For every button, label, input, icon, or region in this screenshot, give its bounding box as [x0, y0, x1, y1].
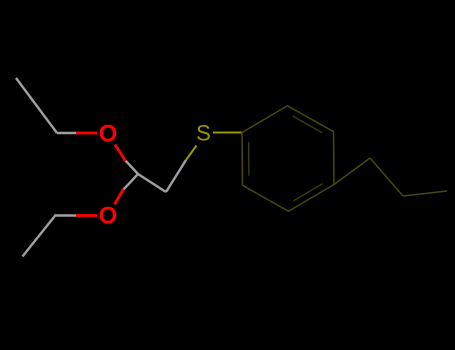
wire: olive bond S-ring — [213, 132, 242, 134]
wire: CH-CH2 grey bond — [138, 174, 166, 192]
wire: CH2-S grey half bond — [166, 160, 186, 192]
wire: CH2-O1 grey half bond — [57, 132, 77, 134]
wire: propyl C8-C9 — [403, 191, 447, 196]
wire: propyl C7-C8 — [370, 158, 403, 196]
wire: ethyl CH3-CH2 bottom-left grey bond — [23, 215, 57, 257]
wire: O1-CH grey half bond — [125, 160, 139, 175]
wire: red half bond O2 to CH — [115, 189, 124, 205]
wire: red half bond O1 to CH — [115, 145, 126, 162]
wire: O2-CH grey half bond — [123, 174, 138, 190]
wire: olive half bond CH2-S — [186, 133, 242, 161]
wire: ethyl CH3-CH2 top-left grey bond — [16, 78, 186, 257]
wire: ring C4 to propyl C7 — [334, 158, 370, 185]
wire: red half bond into O2 — [76, 214, 97, 217]
benzene ring C1-C6 dark bonds — [242, 106, 447, 212]
svg-text:O: O — [99, 121, 118, 148]
wire: CH2'-O2 grey half bond — [56, 214, 77, 216]
double bond inner lines — [249, 116, 323, 201]
svg-text:S: S — [196, 121, 211, 146]
svg-text:O: O — [99, 203, 118, 230]
wire: red half bond into O1 — [76, 133, 126, 216]
